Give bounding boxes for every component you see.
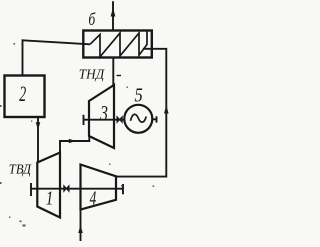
svg-text:1: 1 [46,186,53,209]
svg-text:3: 3 [99,102,107,127]
svg-text:ТНД: ТНД [79,66,106,81]
svg-text:4: 4 [90,187,97,210]
svg-text:б: б [88,10,96,29]
svg-text:5: 5 [135,84,143,106]
svg-text:2: 2 [19,82,26,106]
svg-text:ТВД: ТВД [9,161,33,177]
